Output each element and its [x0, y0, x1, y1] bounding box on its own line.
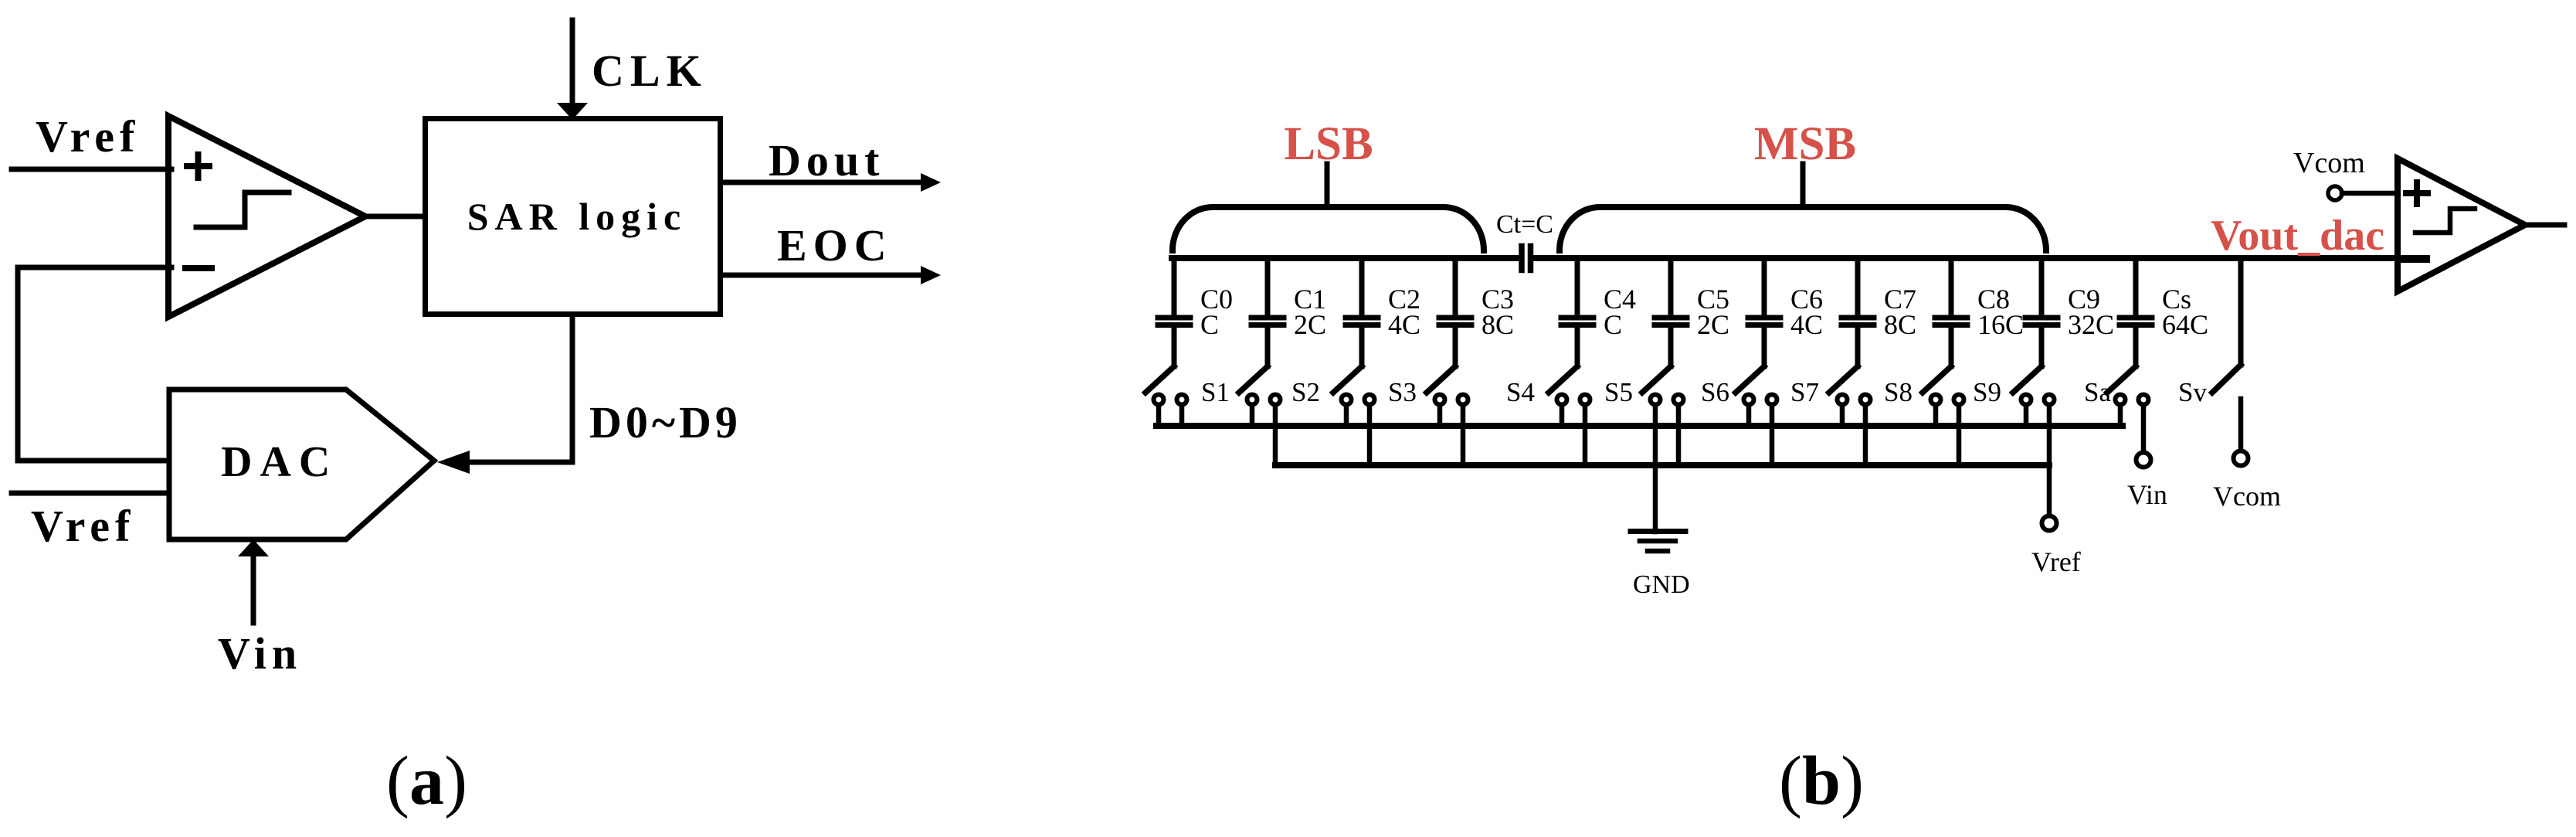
switch Sv from rail to Vcom — [2212, 261, 2241, 448]
wire switch S1 left contact to ground bus — [1156, 406, 1162, 426]
capacitor C2 — [1346, 258, 1378, 366]
svg-text:Vin: Vin — [2127, 479, 2167, 510]
svg-text:DAC: DAC — [221, 438, 338, 486]
wire switch S5 left contact to ground bus — [1560, 406, 1565, 426]
switch S9 lever and contacts under C8 — [1923, 366, 1964, 405]
terminal Vin circle — [2136, 453, 2151, 468]
svg-text:32C: 32C — [2068, 309, 2114, 340]
capacitor C0 — [1158, 258, 1190, 366]
op-amp U4 comparator of part b — [2398, 158, 2525, 291]
wire switch Sv right contact down to Vin terminal — [2141, 406, 2147, 451]
svg-text:C: C — [1200, 309, 1219, 340]
switch S6 lever and contacts under C5 — [1642, 366, 1684, 405]
switch S7 lever and contacts under C6 — [1736, 366, 1777, 405]
svg-text:2C: 2C — [1697, 309, 1729, 340]
capacitor Cs — [2120, 258, 2152, 366]
wire switch S2 left contact to ground bus — [1250, 406, 1255, 426]
wire D0~D9 bus from SAR logic to DAC — [470, 317, 572, 462]
arrowhead CLK — [557, 103, 588, 120]
tick MSB — [1800, 164, 1806, 207]
capacitor C4 — [1561, 258, 1593, 366]
svg-text:S2: S2 — [1291, 377, 1320, 407]
hysteresis symbol inside U1 — [196, 192, 289, 227]
svg-text:S7: S7 — [1790, 377, 1819, 407]
brace MSB group — [1560, 207, 2046, 250]
op-amp U1 comparator — [168, 116, 365, 317]
DAC block U3 — [169, 390, 434, 539]
ground symbol GND — [1631, 532, 1685, 552]
svg-text:CLK: CLK — [592, 46, 708, 96]
capacitor C1 — [1251, 258, 1284, 366]
wire switch S7 right contact to Vref bus — [1770, 406, 1775, 465]
switch S8 lever and contacts under C7 — [1829, 366, 1871, 405]
svg-text:Vcom: Vcom — [2293, 147, 2365, 179]
svg-text:2C: 2C — [1294, 309, 1326, 340]
capacitor C8 — [1935, 258, 1967, 366]
svg-text:S6: S6 — [1701, 377, 1729, 407]
svg-text:Vref: Vref — [2031, 546, 2081, 577]
svg-text:8C: 8C — [1884, 309, 1916, 340]
svg-text:4C: 4C — [1388, 309, 1420, 340]
arrowhead Dout — [921, 173, 941, 192]
svg-text:MSB: MSB — [1754, 118, 1856, 170]
wire switch S1 right contact to ground bus — [1179, 406, 1185, 426]
wire switch S9 left contact to ground bus — [1933, 406, 1939, 426]
wire CLK input — [570, 20, 575, 103]
capacitor C5 — [1655, 258, 1687, 366]
wire Vref bus (bus2) — [1275, 462, 2049, 468]
terminal Vcom circle at comparator + input — [2328, 186, 2342, 200]
svg-text:Sv: Sv — [2178, 377, 2207, 407]
svg-text:Vout_dac: Vout_dac — [2211, 212, 2384, 260]
wire switch Sa left contact to ground bus — [2024, 406, 2029, 426]
wire top rail right of Ct to comparator — [1533, 255, 2398, 261]
pin + of U4 — [2406, 190, 2428, 196]
svg-text:8C: 8C — [1481, 309, 1514, 340]
tick LSB — [1325, 164, 1330, 207]
svg-text:S3: S3 — [1388, 377, 1417, 407]
svg-text:(b): (b) — [1779, 743, 1864, 819]
arrowhead D0~D9 into DAC — [437, 451, 470, 474]
svg-text:Dout: Dout — [769, 135, 884, 185]
svg-text:S9: S9 — [1973, 377, 2001, 407]
svg-text:LSB: LSB — [1284, 118, 1373, 170]
switch Sv lever and contacts under Cs — [2107, 366, 2149, 405]
capacitor C3 — [1439, 258, 1471, 366]
wire switch Sv left contact to ground bus — [2118, 406, 2123, 426]
wire Vref to comparator + input — [12, 167, 171, 172]
wire switch S8 left contact to ground bus — [1840, 406, 1845, 426]
wire switch S3 left contact to ground bus — [1344, 406, 1349, 426]
pin + of U1 — [187, 163, 209, 169]
wire Vref input to DAC — [12, 491, 169, 496]
svg-text:S4: S4 — [1506, 377, 1535, 407]
capacitor C6 — [1748, 258, 1780, 366]
svg-text:Ct=C: Ct=C — [1496, 210, 1553, 239]
svg-text:D0~D9: D0~D9 — [589, 397, 742, 447]
svg-text:4C: 4C — [1790, 309, 1823, 340]
wire switch S6 right contact to Vref bus — [1676, 406, 1682, 465]
arrowhead Vin — [238, 539, 269, 556]
terminal Vcom circle under Sv — [2234, 451, 2248, 466]
svg-text:SAR logic: SAR logic — [467, 195, 687, 238]
wire switch S3 right contact to Vref bus — [1367, 406, 1373, 465]
wire switch S6 left contact to GND branch — [1653, 406, 1658, 532]
wire switch S8 right contact to Vref bus — [1863, 406, 1868, 465]
capacitor Ct coupling — [1519, 247, 1525, 270]
svg-text:(a): (a) — [386, 743, 467, 819]
wire Vcom to comparator + input — [2342, 191, 2398, 196]
switch S4 lever and contacts under C3 — [1427, 366, 1468, 405]
svg-text:EOC: EOC — [777, 220, 893, 270]
capacitor C7 — [1841, 258, 1874, 366]
wire EOC output — [723, 273, 922, 278]
wire switch S9 right contact to Vref bus — [1957, 406, 1962, 465]
wire switch S2 right contact to Vref bus — [1273, 406, 1278, 465]
wire U4 output — [2525, 223, 2564, 228]
wire switch S4 right contact to Vref bus — [1461, 406, 1466, 465]
wire Dout output — [723, 180, 922, 185]
switch S2 lever and contacts under C1 — [1239, 366, 1281, 405]
wire top rail (DAC output node) left of Ct — [1172, 255, 1519, 261]
svg-text:64C: 64C — [2162, 309, 2208, 340]
wire ground bus (bus1) — [1156, 423, 2123, 429]
svg-text:C: C — [1604, 309, 1622, 340]
wire comparator - input feedback from DAC — [18, 267, 171, 461]
switch Sa lever and contacts under C9 — [2013, 366, 2055, 405]
terminal Vref circle — [2042, 516, 2057, 531]
pin - of U1 — [185, 265, 212, 271]
wire switch S5 right contact to Vref bus — [1583, 406, 1588, 465]
arrowhead EOC — [921, 266, 941, 284]
wire switch Sa right contact down to Vref terminal — [2047, 406, 2052, 513]
capacitor C9 — [2025, 258, 2058, 366]
pin - of U4 — [2405, 255, 2426, 263]
SAR logic block U2 — [426, 119, 721, 315]
switch S3 lever and contacts under C2 — [1333, 366, 1375, 405]
svg-text:Vcom: Vcom — [2213, 481, 2281, 512]
hysteresis symbol inside U4 — [2415, 209, 2475, 233]
svg-text:Vref: Vref — [36, 111, 140, 162]
svg-text:16C: 16C — [1977, 309, 2024, 340]
wire U1 output to SAR logic — [365, 214, 424, 219]
svg-text:S8: S8 — [1884, 377, 1912, 407]
svg-text:S5: S5 — [1604, 377, 1633, 407]
svg-text:S1: S1 — [1201, 377, 1230, 407]
switch S5 lever and contacts under C4 — [1549, 366, 1590, 405]
wire switch S4 left contact to ground bus — [1437, 406, 1443, 426]
brace LSB group — [1173, 207, 1484, 250]
svg-text:Vref: Vref — [31, 501, 135, 551]
wire switch S7 left contact to ground bus — [1746, 406, 1752, 426]
svg-text:GND: GND — [1633, 570, 1690, 599]
wire Vin arrow into DAC — [251, 556, 256, 623]
svg-text:Vin: Vin — [218, 628, 302, 679]
switch S1 lever and contacts under C0 — [1145, 366, 1187, 405]
svg-text:Sa: Sa — [2084, 377, 2111, 407]
